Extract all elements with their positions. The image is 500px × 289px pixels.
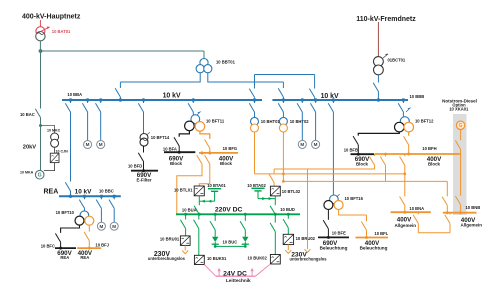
svg-text:10 BRU01: 10 BRU01: [160, 237, 180, 242]
svg-text:10 MKA: 10 MKA: [20, 171, 34, 175]
svg-text:Allgemein: Allgemein: [461, 222, 483, 227]
svg-text:10 MKC: 10 MKC: [47, 129, 61, 133]
svg-text:Beleuchtung: Beleuchtung: [360, 246, 388, 251]
svg-text:10 BTL02: 10 BTL02: [282, 189, 301, 194]
svg-text:24V DC: 24V DC: [223, 270, 247, 277]
svg-text:10 kV: 10 kV: [163, 92, 181, 99]
svg-text:10 BBC: 10 BBC: [99, 189, 114, 194]
svg-text:10 BFD: 10 BFD: [128, 163, 142, 168]
svg-text:10 BNA: 10 BNA: [409, 206, 424, 211]
svg-text:10 BFE: 10 BFE: [332, 231, 346, 236]
svg-text:10 BFT14: 10 BFT14: [151, 135, 170, 140]
svg-text:G: G: [459, 123, 463, 129]
svg-text:REA: REA: [60, 255, 69, 260]
svg-text:Block: Block: [356, 161, 369, 166]
svg-text:10 BAT01: 10 BAT01: [52, 29, 71, 34]
svg-text:10 kV: 10 kV: [75, 189, 92, 196]
svg-text:unterbrechungslos: unterbrechungslos: [148, 256, 186, 261]
svg-text:10 BFT12: 10 BFT12: [415, 118, 434, 123]
svg-text:Beleuchtung: Beleuchtung: [320, 246, 348, 251]
svg-text:10 XKA01: 10 XKA01: [449, 107, 469, 112]
svg-text:10 BFJ: 10 BFJ: [95, 243, 109, 248]
svg-text:20kV: 20kV: [23, 145, 36, 151]
svg-text:REA: REA: [44, 188, 59, 195]
svg-text:10 BRU02: 10 BRU02: [296, 236, 316, 241]
svg-text:220V DC: 220V DC: [215, 206, 243, 213]
svg-text:10 BHT01: 10 BHT01: [261, 119, 281, 124]
svg-text:10 BFA: 10 BFA: [163, 146, 177, 151]
svg-text:10 BHT02: 10 BHT02: [290, 119, 310, 124]
svg-text:Block: Block: [170, 161, 183, 166]
svg-text:10 BUC: 10 BUC: [223, 239, 238, 244]
svg-text:01BCT01: 01BCT01: [388, 58, 406, 63]
svg-text:400-kV-Hauptnetz: 400-kV-Hauptnetz: [22, 14, 81, 21]
svg-text:10 BNB: 10 BNB: [466, 205, 481, 210]
svg-text:10 BUK02: 10 BUK02: [247, 256, 267, 261]
svg-text:M: M: [300, 142, 304, 147]
svg-text:10 BTA02: 10 BTA02: [247, 183, 266, 188]
svg-text:M: M: [99, 142, 103, 147]
svg-text:Block: Block: [220, 161, 233, 166]
svg-text:REA: REA: [80, 255, 89, 260]
svg-text:M: M: [314, 142, 318, 147]
svg-text:M: M: [112, 224, 116, 229]
svg-text:10 BFL: 10 BFL: [374, 231, 388, 236]
svg-text:10 BBT01: 10 BBT01: [216, 60, 236, 65]
svg-text:Allgemein: Allgemein: [394, 223, 416, 228]
svg-text:10 BUK01: 10 BUK01: [207, 256, 227, 261]
svg-text:10 kV: 10 kV: [321, 93, 339, 100]
svg-text:G: G: [38, 173, 42, 179]
svg-text:10 BFG: 10 BFG: [223, 146, 238, 151]
svg-text:10 BFB: 10 BFB: [344, 147, 358, 152]
svg-text:10 BUD: 10 BUD: [280, 207, 295, 212]
svg-text:M: M: [99, 224, 103, 229]
svg-text:10 BFT11: 10 BFT11: [206, 118, 225, 123]
svg-text:10 BUA: 10 BUA: [182, 207, 197, 212]
svg-text:10 BFC: 10 BFC: [41, 243, 55, 248]
svg-text:M: M: [86, 142, 90, 147]
svg-text:E-Filter: E-Filter: [136, 177, 151, 182]
svg-text:10 BFT16: 10 BFT16: [345, 196, 364, 201]
svg-text:unterbrechungslos: unterbrechungslos: [289, 257, 327, 262]
svg-text:10 BTL01: 10 BTL01: [174, 188, 193, 193]
svg-text:10 BFT10: 10 BFT10: [56, 210, 75, 215]
svg-text:110-kV-Fremdnetz: 110-kV-Fremdnetz: [356, 16, 416, 23]
svg-text:10 BFH: 10 BFH: [422, 146, 436, 151]
svg-text:10 CJN: 10 CJN: [56, 149, 69, 153]
svg-text:Block: Block: [428, 161, 441, 166]
svg-text:10 BTA01: 10 BTA01: [207, 183, 226, 188]
svg-text:10 BBA: 10 BBA: [67, 92, 82, 97]
svg-text:10 BAC: 10 BAC: [20, 112, 35, 117]
svg-text:10 BBB: 10 BBB: [410, 94, 425, 99]
svg-text:Leittechnik: Leittechnik: [226, 278, 251, 283]
